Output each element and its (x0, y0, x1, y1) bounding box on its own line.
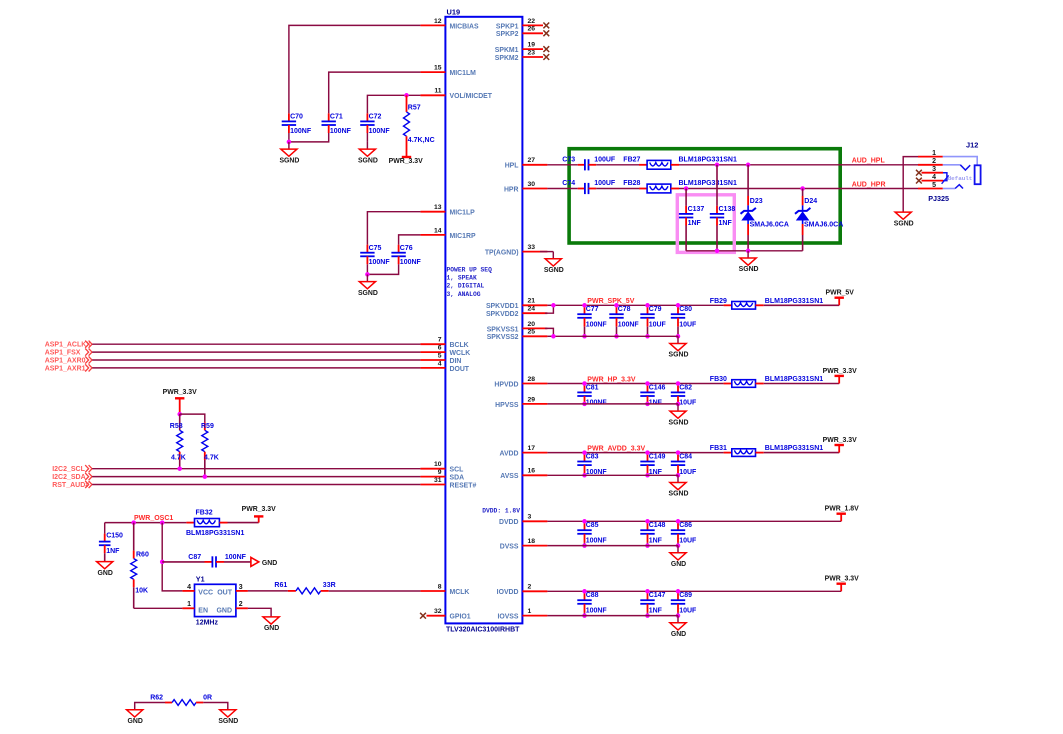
svg-text:5: 5 (932, 182, 936, 189)
svg-text:19: 19 (528, 42, 536, 49)
svg-text:18: 18 (528, 538, 536, 545)
pin 20 SPKVSS1 (487, 321, 548, 334)
node C78 bottom (614, 334, 619, 339)
pin 26 SPKP2 (496, 26, 549, 39)
capacitor C85 (577, 521, 607, 545)
svg-text:ASP1_AXR1: ASP1_AXR1 (45, 365, 86, 372)
no-connect X on J12 pin3 (916, 170, 922, 176)
svg-text:27: 27 (528, 157, 536, 164)
svg-text:26: 26 (528, 26, 536, 33)
wire GND to R62 (135, 703, 165, 710)
wire GND VSS rail (547, 545, 678, 547)
node C82 bottom (676, 402, 681, 407)
resistor R59 (201, 422, 219, 476)
svg-text:SGND: SGND (669, 491, 689, 498)
ground SGND of section PWR_SPK_5V (669, 336, 689, 358)
pin 33 TP(AGND) (485, 244, 548, 257)
ground SGND at C70 (279, 142, 299, 164)
ground SGND at TP(AGND) (544, 252, 564, 274)
pin 30 HPR (504, 181, 547, 194)
node SPKVSS join (551, 334, 556, 339)
svg-text:R59: R59 (201, 423, 214, 430)
svg-text:100NF: 100NF (586, 538, 608, 545)
node R60 top (131, 520, 136, 525)
wire SGND VSS rail (547, 403, 678, 405)
ferrite bead FB30 (710, 376, 839, 387)
wire junction to R59 (180, 414, 205, 422)
pin 15 MIC1LM (420, 65, 476, 78)
node C85 top (582, 519, 587, 524)
svg-text:default: default (948, 175, 973, 182)
pin 2 of J12 (918, 158, 943, 165)
node R58 on SCL (177, 466, 182, 471)
pin 1 of J12 (918, 150, 943, 157)
ground GND arrow at C87 (251, 557, 277, 566)
svg-text:33R: 33R (323, 582, 336, 589)
node C147 bottom (645, 613, 650, 618)
svg-text:31: 31 (434, 477, 442, 484)
wire rail (547, 520, 841, 522)
capacitor C83 (577, 453, 607, 476)
svg-text:BLM18PG331SN1: BLM18PG331SN1 (679, 156, 737, 163)
port I2C2_SDA (52, 473, 92, 481)
svg-text:R58: R58 (170, 423, 183, 430)
node C79 top (645, 303, 650, 308)
svg-text:U19: U19 (447, 8, 461, 17)
svg-text:24: 24 (528, 306, 536, 313)
svg-text:C86: C86 (679, 522, 692, 529)
svg-text:1NF: 1NF (106, 548, 120, 555)
power PWR_1.8V (825, 506, 859, 522)
wire PWR_HP_3.3V rail (547, 383, 723, 385)
svg-text:SGND: SGND (358, 157, 378, 164)
svg-text:BLM18PG331SN1: BLM18PG331SN1 (765, 298, 823, 305)
svg-text:100NF: 100NF (400, 259, 422, 266)
ground SGND of HP filter (739, 251, 759, 273)
ground SGND of section PWR_AVDD_3.3V (669, 475, 689, 497)
highlight green box (569, 149, 840, 243)
ground SGND at C75 (358, 274, 378, 296)
power PWR_3.3V above R58 (163, 389, 197, 414)
node D24 on HPR (800, 186, 805, 191)
pin 7 BCLK (420, 337, 468, 350)
node C88 top (582, 589, 587, 594)
power PWR_5V (826, 290, 855, 306)
node C87 junction (160, 560, 165, 565)
svg-text:4.7K: 4.7K (204, 454, 219, 461)
svg-text:AUD_HPR: AUD_HPR (852, 181, 886, 188)
svg-text:I2C2_SCL: I2C2_SCL (52, 466, 85, 473)
svg-text:SDA: SDA (450, 475, 465, 482)
svg-text:C79: C79 (649, 306, 662, 313)
svg-text:1, SPEAK: 1, SPEAK (447, 275, 477, 282)
svg-text:RESET#: RESET# (450, 482, 477, 489)
svg-text:R60: R60 (136, 551, 149, 558)
capacitor C88 (577, 591, 607, 615)
wire TP(AGND) to SGND (540, 251, 553, 253)
svg-text:22: 22 (528, 18, 536, 25)
port RST_AUD# (52, 481, 92, 489)
capacitor C72 (360, 113, 390, 134)
node C85 bottom (582, 543, 587, 548)
wire C76 bottom to node (367, 264, 398, 274)
svg-text:C137: C137 (688, 206, 705, 213)
node C84 top (676, 450, 681, 455)
ground SGND at C72 (358, 142, 378, 164)
resistor R58 (170, 414, 186, 469)
svg-text:100NF: 100NF (330, 128, 352, 135)
wire I2C2_SCL (92, 468, 420, 470)
svg-text:C76: C76 (400, 245, 413, 252)
ground GND at R62 (127, 710, 143, 725)
wire C75 bottom (366, 264, 368, 274)
svg-text:PWR_OSC1: PWR_OSC1 (134, 515, 173, 522)
svg-text:3: 3 (528, 514, 532, 521)
wire ASP1_AXR0 (92, 359, 420, 361)
svg-text:PWR_5V: PWR_5V (826, 290, 855, 297)
jack ring2 contact pin5 (943, 185, 963, 189)
svg-text:C85: C85 (586, 522, 599, 529)
wire HP line C73 left (547, 164, 577, 166)
node C80 bottom (676, 334, 681, 339)
power PWR_3.3V (823, 437, 857, 453)
capacitor C82 (671, 384, 697, 407)
node C70/C71 ground junction (287, 140, 292, 145)
pin 6 WCLK (420, 345, 470, 358)
svg-text:DVSS: DVSS (500, 544, 519, 551)
svg-text:10UF: 10UF (679, 322, 697, 329)
svg-text:2, DIGITAL: 2, DIGITAL (447, 283, 485, 290)
svg-text:C78: C78 (618, 306, 631, 313)
svg-text:C146: C146 (649, 384, 666, 391)
svg-text:C81: C81 (586, 384, 599, 391)
svg-text:28: 28 (528, 376, 536, 383)
capacitor C79 (640, 305, 666, 336)
pin 13 MIC1LP (420, 204, 475, 217)
svg-text:C82: C82 (679, 384, 692, 391)
ground SGND at R62 (218, 710, 238, 725)
capacitor C80 (671, 305, 697, 336)
capacitor C78 (609, 305, 639, 336)
svg-text:SGND: SGND (279, 157, 299, 164)
pin 3 of J12 (922, 166, 944, 173)
svg-text:C88: C88 (586, 592, 599, 599)
node C138 on rail (715, 249, 720, 254)
node R58/R59 top junction (177, 412, 182, 417)
pin 14 MIC1RP (420, 227, 476, 240)
svg-text:1NF: 1NF (719, 220, 733, 227)
svg-text:TP(AGND): TP(AGND) (485, 250, 519, 257)
wire R62 to SGND (203, 703, 228, 710)
svg-text:11: 11 (434, 88, 441, 95)
pin 5 of J12 (918, 182, 943, 189)
svg-text:100NF: 100NF (290, 128, 312, 135)
svg-text:GPIO1: GPIO1 (450, 614, 471, 621)
capacitor C149 (640, 453, 665, 476)
resistor R57 (404, 95, 435, 157)
svg-text:1NF: 1NF (649, 608, 663, 615)
svg-text:1: 1 (528, 608, 532, 615)
svg-text:100NF: 100NF (618, 322, 640, 329)
pin 1 IOVSS (497, 608, 547, 621)
wire SPKVDD2 joins (545, 305, 553, 313)
pin 28 HPVDD (494, 376, 547, 389)
wire GND VSS rail (547, 615, 678, 617)
node D23 on rail (746, 249, 751, 254)
pin 19 SPKM1 (495, 42, 549, 55)
svg-text:SCL: SCL (450, 467, 464, 474)
svg-text:MIC1RP: MIC1RP (450, 233, 476, 240)
svg-text:BLM18PG331SN1: BLM18PG331SN1 (186, 530, 244, 537)
svg-text:10UF: 10UF (649, 322, 667, 329)
port ASP1_AXR1 (45, 364, 92, 372)
node branch top (160, 520, 165, 525)
wire jack pin1 to ground (903, 157, 918, 212)
pin 5 DIN (420, 352, 461, 365)
wire ASP1_ACLKX (92, 343, 420, 345)
wire SGND VSS rail (547, 474, 678, 476)
node C83 bottom (582, 473, 587, 478)
svg-text:ASP1_ACLKX: ASP1_ACLKX (45, 342, 92, 349)
svg-text:TLV320AIC3100IRHBT: TLV320AIC3100IRHBT (446, 627, 520, 634)
svg-text:IOVDD: IOVDD (497, 589, 519, 596)
wire HP line C74 left (547, 188, 577, 190)
svg-text:FB30: FB30 (710, 376, 727, 383)
svg-text:6: 6 (438, 345, 442, 352)
node C86 top (676, 519, 681, 524)
svg-text:2: 2 (239, 601, 243, 608)
node R59 on SDA (203, 474, 208, 479)
svg-text:33: 33 (528, 244, 536, 251)
svg-text:14: 14 (434, 227, 442, 234)
wire PWR_SPK_5V rail (553, 304, 723, 306)
pin 18 DVSS (500, 538, 548, 551)
svg-text:SPKM1: SPKM1 (495, 47, 519, 54)
node SPKVDD join (551, 303, 556, 308)
svg-text:IOVSS: IOVSS (497, 614, 518, 621)
jack body barrel (975, 165, 981, 184)
wire C74 to FB28 (596, 188, 639, 190)
svg-text:ASP1_FSX: ASP1_FSX (45, 350, 81, 357)
ferrite bead FB27 (623, 156, 737, 169)
pin 29 HPVSS (495, 396, 547, 409)
svg-text:C84: C84 (679, 453, 692, 460)
port ASP1_FSX (45, 349, 92, 357)
svg-text:BLM18PG331SN1: BLM18PG331SN1 (765, 376, 823, 383)
node C146 bottom (645, 402, 650, 407)
svg-text:WCLK: WCLK (450, 350, 471, 357)
svg-text:PWR_AVDD_3.3V: PWR_AVDD_3.3V (587, 445, 645, 452)
port I2C2_SCL (52, 465, 92, 473)
svg-text:SPKM2: SPKM2 (495, 55, 519, 62)
ground SGND of section PWR_HP_3.3V (669, 404, 689, 426)
no-connect X on J12 pin4 (916, 178, 922, 184)
svg-text:PWR_1.8V: PWR_1.8V (825, 506, 859, 513)
jack tip contact pin2 (943, 165, 970, 170)
pin 9 SDA (420, 469, 464, 482)
ferrite bead FB28 (623, 180, 737, 193)
svg-text:GND: GND (264, 625, 279, 632)
capacitor C150 (99, 523, 123, 562)
svg-text:12MHz: 12MHz (196, 620, 219, 627)
svg-text:FB28: FB28 (623, 180, 640, 187)
svg-text:MIC1LM: MIC1LM (450, 70, 477, 77)
svg-text:PWR_SPK_5V: PWR_SPK_5V (587, 298, 634, 305)
capacitor C77 (577, 305, 607, 336)
svg-text:3, ANALOG: 3, ANALOG (447, 291, 481, 298)
svg-text:10UF: 10UF (679, 608, 697, 615)
resistor R62 (150, 694, 212, 705)
svg-text:100NF: 100NF (586, 608, 608, 615)
pin 27 HPL (505, 157, 548, 170)
svg-text:C138: C138 (719, 206, 736, 213)
ferrite bead FB32 (186, 510, 259, 538)
pin 1 stub Y1 (182, 607, 194, 609)
svg-text:SPKVSS1: SPKVSS1 (487, 326, 519, 333)
svg-text:SGND: SGND (218, 718, 238, 725)
capacitor C70 (282, 113, 312, 134)
svg-text:4.7K,NC: 4.7K,NC (408, 137, 435, 144)
svg-text:C71: C71 (330, 114, 343, 121)
svg-text:I2C2_SDA: I2C2_SDA (52, 474, 85, 481)
ground GND of section (670, 616, 686, 638)
resistor R60 (131, 523, 149, 609)
pin 10 SCL (420, 461, 463, 474)
svg-text:4: 4 (438, 360, 442, 367)
power PWR_3.3V below R57 (389, 157, 423, 165)
svg-text:17: 17 (528, 445, 536, 452)
wire R61 to MCLK (329, 590, 421, 592)
svg-text:VCC: VCC (198, 589, 213, 596)
pin 22 SPKP1 (496, 18, 549, 31)
svg-text:25: 25 (528, 329, 536, 336)
svg-text:32: 32 (434, 608, 442, 615)
wire MICBIAS to C70 (289, 25, 421, 113)
ground GND of section (670, 546, 686, 568)
svg-text:SGND: SGND (358, 290, 378, 297)
wire MIC1LM to C71 (329, 72, 421, 113)
node C86 bottom (676, 543, 681, 548)
svg-text:15: 15 (434, 65, 442, 72)
svg-text:1: 1 (932, 150, 936, 157)
svg-text:100UF: 100UF (594, 180, 616, 187)
svg-text:EN: EN (198, 608, 208, 615)
svg-text:OUT: OUT (217, 589, 233, 596)
node C149 bottom (645, 473, 650, 478)
wire C72 bottom (366, 133, 368, 142)
wire C70 bottom (288, 133, 290, 142)
node C138 on HPL (715, 163, 720, 168)
wire SPKVSS2 stub (547, 335, 553, 337)
node C147 top (645, 589, 650, 594)
capacitor C138 (710, 165, 736, 251)
svg-text:PWR_3.3V: PWR_3.3V (823, 368, 857, 375)
wire MIC1RP to C76 (399, 235, 421, 245)
svg-text:RST_AUD#: RST_AUD# (52, 482, 89, 489)
svg-text:PWR_3.3V: PWR_3.3V (825, 576, 859, 583)
pin 2 stub Y1 (236, 607, 248, 609)
svg-text:100NF: 100NF (369, 128, 391, 135)
svg-text:3: 3 (932, 166, 936, 173)
node D23 on HPL (746, 163, 751, 168)
svg-text:C72: C72 (369, 114, 382, 121)
svg-text:C147: C147 (649, 592, 666, 599)
svg-text:100UF: 100UF (594, 156, 616, 163)
svg-text:MICBIAS: MICBIAS (450, 23, 479, 30)
svg-text:POWER UP SEQ: POWER UP SEQ (447, 266, 493, 273)
svg-text:MIC1LP: MIC1LP (450, 210, 476, 217)
svg-text:10K: 10K (135, 587, 148, 594)
svg-text:BCLK: BCLK (450, 342, 469, 349)
node C79 bottom (645, 334, 650, 339)
node C81 top (582, 381, 587, 386)
wire HPR to jack (679, 188, 918, 190)
svg-text:SGND: SGND (669, 352, 689, 359)
capacitor C73 (562, 156, 616, 170)
highlight pink box (677, 195, 734, 253)
svg-text:C73: C73 (562, 156, 575, 163)
svg-text:4.7K: 4.7K (171, 454, 186, 461)
node C89 top (676, 589, 681, 594)
svg-text:100NF: 100NF (369, 259, 391, 266)
svg-text:23: 23 (528, 49, 536, 56)
svg-text:C80: C80 (679, 306, 692, 313)
svg-text:30: 30 (528, 181, 536, 188)
power PWR_3.3V (825, 576, 859, 592)
svg-text:4: 4 (187, 584, 191, 591)
svg-text:C74: C74 (562, 180, 575, 187)
svg-text:21: 21 (528, 298, 536, 305)
svg-text:PWR_3.3V: PWR_3.3V (823, 437, 857, 444)
pin 2 IOVDD (497, 584, 548, 597)
svg-text:SMAJ6.0CA: SMAJ6.0CA (750, 221, 789, 228)
node C80 top (676, 303, 681, 308)
svg-text:PJ325: PJ325 (928, 194, 949, 203)
svg-text:C75: C75 (369, 245, 382, 252)
jack sleeve wire pin1 (943, 157, 977, 166)
svg-text:C83: C83 (586, 453, 599, 460)
svg-text:C89: C89 (679, 592, 692, 599)
capacitor C74 (562, 180, 616, 194)
pin 8 MCLK (420, 583, 469, 596)
ground GND at Y1 (263, 617, 279, 632)
svg-text:GND: GND (98, 570, 113, 577)
svg-text:C149: C149 (649, 453, 666, 460)
svg-text:FB31: FB31 (710, 445, 727, 452)
pin 4 DOUT (420, 360, 469, 373)
svg-text:7: 7 (438, 337, 442, 344)
capacitor C75 (360, 245, 390, 266)
wire branch to C87/Y1 (162, 523, 182, 591)
svg-text:10UF: 10UF (679, 400, 697, 407)
no-connect X on GPIO1 (420, 613, 426, 619)
svg-text:PWR_3.3V: PWR_3.3V (389, 158, 423, 165)
svg-text:GND: GND (128, 718, 143, 725)
pin 3 DVDD (499, 514, 547, 527)
node C75/C76 ground junction (365, 272, 370, 277)
svg-text:PWR_HP_3.3V: PWR_HP_3.3V (587, 376, 636, 383)
capacitor C148 (640, 521, 665, 545)
svg-text:AVSS: AVSS (500, 473, 519, 480)
capacitor C81 (577, 384, 607, 407)
svg-text:SPKVSS2: SPKVSS2 (487, 334, 519, 341)
IC internal note POWER UP SEQ (447, 266, 493, 298)
svg-text:Y1: Y1 (196, 575, 205, 584)
svg-text:GND: GND (262, 560, 277, 567)
svg-text:J12: J12 (966, 141, 978, 150)
pin 12 MICBIAS (420, 18, 479, 31)
svg-text:GND: GND (671, 561, 686, 568)
